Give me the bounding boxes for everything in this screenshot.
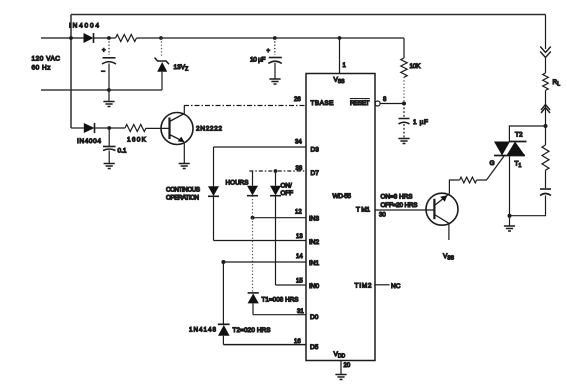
svg-text:D0: D0 [310, 314, 319, 321]
capacitor C2 0.1 [103, 128, 116, 163]
svg-text:NC: NC [391, 283, 401, 290]
wire TIM2 to NC [375, 284, 390, 286]
label 0.1 [118, 148, 127, 155]
pin number 31 [297, 309, 304, 315]
wire vertical A to IN2 line [213, 196, 215, 240]
wire D0 pin 31 [253, 314, 306, 316]
diode D6 ON/OFF [270, 171, 281, 196]
pin number 1 [343, 63, 347, 69]
svg-text:−: − [101, 69, 105, 76]
svg-text:1: 1 [343, 63, 347, 69]
wire VSS pin 1 riser [339, 38, 341, 74]
label 120 VAC 60 Hz [32, 56, 61, 72]
pin number 8 [383, 97, 387, 103]
op IC U1 WD-55 body [306, 74, 375, 361]
wire 160K to Q1 base [146, 127, 170, 129]
svg-text:31: 31 [297, 309, 304, 315]
label CONTINUOUS OPERATION [166, 187, 200, 202]
wire D5 pin 16 [223, 344, 306, 346]
label T1=008 HRS [262, 297, 299, 304]
svg-text:15: 15 [296, 279, 303, 285]
pin number 15 [296, 279, 303, 285]
ground below C2 [104, 164, 115, 169]
zener D2 13V [155, 38, 170, 90]
node load/snubber/triac [544, 124, 548, 128]
node C1 top [107, 36, 111, 40]
wire riser x71 from top rail to lower diode line [70, 15, 72, 129]
diode D8 T1=008 HRS (points up) [248, 293, 259, 304]
wire triac T1 down [509, 156, 511, 216]
capacitor C1 electrolytic (top-left) [101, 38, 116, 90]
label VDD [334, 351, 346, 360]
label ON=8 HRS OFF=20 HRS [381, 194, 418, 210]
ground below VDD [335, 375, 346, 380]
label D5 [310, 344, 319, 351]
svg-text:120 VAC: 120 VAC [32, 56, 61, 63]
triac U2 [494, 142, 527, 156]
wire D7 pin 38 (dash-dot) [249, 170, 306, 172]
node IN3 junction [251, 216, 255, 220]
wire vertical A down to CONT diode [213, 147, 215, 186]
wire IN2 pin 13 [214, 240, 307, 242]
svg-text:D7: D7 [311, 170, 320, 177]
transistor Q1 2N2222 [161, 113, 193, 145]
svg-text:0.1: 0.1 [118, 148, 127, 155]
svg-text:+: + [267, 49, 271, 55]
transistor Q2 (drive) [426, 193, 458, 225]
svg-text:IN2: IN2 [309, 239, 320, 246]
svg-text:ON=8 HRS: ON=8 HRS [381, 194, 413, 201]
label IN1 [309, 260, 320, 267]
label T2=020 HRS [233, 327, 271, 334]
svg-text:34: 34 [295, 140, 302, 146]
svg-text:D5: D5 [310, 344, 319, 351]
pin number 34 [295, 140, 302, 146]
label VSS pin name [334, 77, 346, 86]
diode D5 HOURS [247, 186, 258, 196]
svg-text:RL: RL [553, 79, 561, 88]
wire T2 diode to D5 line [222, 336, 224, 345]
svg-text:16: 16 [294, 339, 301, 345]
label HOURS [226, 180, 249, 187]
node T1/snubber/ground [508, 214, 512, 218]
wire hot y38 resistor to 10K corner [137, 37, 405, 39]
node VSS riser top [338, 36, 342, 40]
wire Q1 emitter down [183, 143, 185, 164]
resistor R5 snubber [542, 126, 549, 170]
svg-text:1 µF: 1 µF [413, 119, 428, 126]
svg-text:20: 20 [344, 363, 351, 369]
svg-text:OPERATION: OPERATION [166, 195, 199, 202]
pin number 30 [379, 213, 386, 219]
svg-text:13: 13 [296, 234, 303, 240]
wire Q2 emitter up to resistor [449, 180, 459, 194]
svg-text:38: 38 [296, 166, 303, 172]
resistor R1 (unlabeled) [116, 35, 137, 42]
pin number 13 [296, 234, 303, 240]
wire chevron to node [545, 110, 547, 126]
node reset/10K/1uF [402, 102, 406, 106]
svg-text:ON/: ON/ [281, 182, 292, 189]
svg-text:IN1: IN1 [309, 260, 320, 267]
label T1 [515, 161, 522, 170]
svg-text:T2: T2 [515, 132, 523, 139]
svg-text:IN4004: IN4004 [77, 138, 101, 145]
label RESET with overline [350, 99, 370, 108]
pin number 20 [344, 363, 351, 369]
svg-text:HOURS: HOURS [226, 180, 249, 187]
diode D1 IN4004 [84, 33, 94, 43]
pin number 26 [294, 97, 301, 103]
svg-text:OFF=20 HRS: OFF=20 HRS [381, 202, 418, 209]
connector chevron (bottom, up) [541, 105, 550, 114]
svg-text:12: 12 [295, 210, 302, 216]
diode D3 IN4004 (lower) [84, 123, 95, 133]
pin number 38 [296, 166, 303, 172]
label D0 [310, 314, 319, 321]
wire hot y38 diode to resistor [94, 37, 116, 39]
svg-text:14: 14 [296, 254, 303, 260]
wire IN3 pin 12 [253, 217, 307, 219]
connector chevrons (top) [540, 47, 551, 58]
svg-text:160K: 160K [127, 137, 147, 144]
svg-text:RESET: RESET [350, 100, 370, 107]
svg-text:60 Hz: 60 Hz [32, 65, 51, 72]
wire vertical D IN1 to T2 diode [222, 262, 224, 324]
wire Q2 collector down [448, 223, 450, 240]
svg-text:1N4148: 1N4148 [189, 327, 216, 334]
svg-text:IN3: IN3 [309, 216, 320, 223]
label RL [553, 79, 561, 88]
svg-text:30: 30 [379, 213, 386, 219]
wire vertical C ONOFF to IN0 [275, 196, 277, 285]
wire y128 diode to 160K [95, 127, 126, 129]
ground below C1 [103, 90, 114, 107]
svg-text:IN0: IN0 [309, 283, 320, 290]
node zener top [159, 36, 163, 40]
wire vertical B top (HOURS) [252, 171, 254, 186]
label TIM2 [355, 283, 372, 290]
svg-text:G: G [490, 160, 495, 167]
diode D4 CONTINUOUS OPERATION [208, 186, 219, 196]
node C2 top [107, 126, 111, 130]
svg-text:TBASE: TBASE [311, 100, 335, 107]
wire far-right vertical from rail [545, 15, 547, 50]
capacitor C4 1uF [399, 104, 410, 139]
label IN3 [309, 216, 320, 223]
wire RL to chevron [545, 91, 547, 111]
wire vertical B HOURS to IN3 (dotted) [252, 196, 254, 218]
resistor R4 gate [460, 177, 477, 183]
label 1N4148 [189, 327, 216, 334]
svg-text:D3: D3 [311, 147, 320, 154]
label D7 [311, 170, 320, 177]
svg-text:10 µF: 10 µF [250, 57, 266, 64]
svg-text:T1=008 HRS: T1=008 HRS [262, 297, 299, 304]
pin number 16 [294, 339, 301, 345]
pin number 12 [295, 210, 302, 216]
label 10uF [250, 57, 266, 64]
diode D9 T2=020 HRS (points up) [218, 324, 230, 336]
svg-text:IN4004: IN4004 [69, 23, 99, 30]
svg-text:13VZ: 13VZ [174, 64, 189, 73]
capacitor C3 10uF [267, 38, 282, 79]
label IN4004 (D3) [77, 138, 101, 145]
svg-text:T2=020 HRS: T2=020 HRS [233, 327, 271, 334]
resistor R2 160K [125, 125, 146, 132]
label TBASE [311, 100, 335, 107]
svg-text:T M1: T M1 [356, 207, 370, 214]
label 1uF [413, 119, 428, 126]
label IN0 [309, 283, 320, 290]
wire AC hot input y38 [41, 37, 84, 39]
label 160K [127, 137, 147, 144]
ground below C3 [269, 79, 280, 84]
resistor R3 10K [401, 38, 407, 104]
wire T1 node to ground [509, 216, 511, 226]
svg-text:OFF: OFF [281, 190, 294, 197]
svg-text:8: 8 [383, 97, 387, 103]
svg-text:CONTINOUS: CONTINOUS [166, 187, 200, 194]
label D3 [311, 147, 320, 154]
label 2N2222 [196, 126, 222, 133]
label T2 [515, 132, 523, 139]
label G [490, 160, 495, 167]
svg-text:VDD: VDD [334, 351, 346, 360]
capacitor C5 snubber [510, 170, 552, 216]
wire vertical B IN3 to T1 diode (dotted) [252, 218, 254, 293]
node 10uF top [273, 36, 277, 40]
svg-text:WD-55: WD-55 [333, 193, 352, 200]
ground below triac [504, 226, 515, 231]
node IN1 corner junction [221, 260, 225, 264]
label 13VZ [174, 64, 189, 73]
wire Q1 collector to TBASE pin 26 (dash-dot) [184, 105, 306, 107]
ground below Q1 emitter [179, 164, 190, 169]
label 10K [410, 63, 422, 70]
label NC [391, 283, 401, 290]
wire top rail from AC hot to load [71, 14, 546, 16]
svg-text:10K: 10K [410, 63, 422, 70]
svg-text:VSS: VSS [334, 77, 346, 86]
svg-text:26: 26 [294, 97, 301, 103]
resistor RL [543, 73, 549, 90]
label ON/OFF [281, 182, 294, 196]
svg-text:2N2222: 2N2222 [196, 126, 222, 133]
svg-text:T1: T1 [515, 161, 522, 170]
wire D3 pin 34 [214, 146, 307, 148]
node C1 bottom on neutral [107, 88, 111, 92]
node D7/ONOFF junction [274, 169, 278, 173]
label TIM1 [356, 207, 370, 214]
ground below C4 [398, 139, 409, 144]
pin number 14 [296, 254, 303, 260]
wire TIM1 pin 30 to Q2 base [375, 209, 434, 211]
wire Q1 collector up [183, 106, 185, 114]
label WD-55 [333, 193, 352, 200]
wire VDD pin 20 [340, 361, 342, 375]
label IN2 [309, 239, 320, 246]
wire lower diode line y128 [71, 127, 84, 129]
label VSS (Q2) [443, 253, 455, 262]
node hot/riser junction [69, 36, 73, 40]
svg-text:VSS: VSS [443, 253, 455, 262]
label IN4004 (D1) [69, 23, 99, 30]
wire IN1 pin 14 [223, 261, 306, 263]
pin bubble RESET pin 8 [375, 101, 380, 106]
wire resistor to gate diagonal [477, 155, 505, 180]
svg-text:TIM2: TIM2 [355, 283, 372, 290]
wire IN0 pin 15 [276, 284, 307, 286]
wire T1 diode to D0 line [252, 303, 254, 314]
wire AC neutral input y90 [41, 89, 162, 91]
svg-text:+: + [102, 48, 106, 54]
wire chevrons to RL [545, 58, 547, 74]
wire RESET to node [380, 103, 404, 105]
wire node to triac T2 [509, 126, 545, 142]
